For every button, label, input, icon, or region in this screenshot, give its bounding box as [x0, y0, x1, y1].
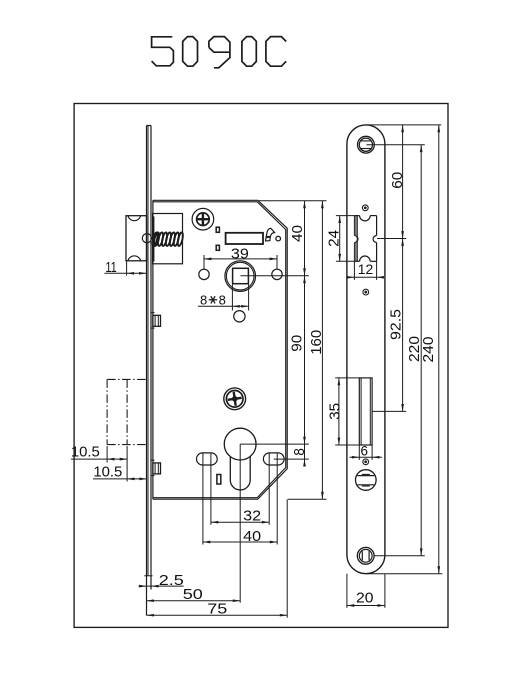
handle fixing hole left	[199, 269, 209, 279]
guide pin upper	[153, 315, 161, 326]
faceplate bottom screw hole	[357, 547, 374, 564]
svg-text:8: 8	[292, 448, 308, 456]
extension line plate bottom	[366, 573, 442, 575]
extension line plate top	[367, 124, 441, 126]
svg-text:10.5: 10.5	[93, 465, 122, 481]
svg-text:75: 75	[207, 601, 227, 617]
pin hole below latch cutout	[363, 289, 369, 295]
drawing border frame	[74, 104, 448, 628]
dim 24 latch cutout height	[336, 215, 355, 217]
dim 20 faceplate width	[346, 574, 348, 608]
stop lever	[266, 228, 274, 236]
dim 11 latch projection	[126, 261, 128, 276]
dim 8x8 follower square	[231, 285, 233, 311]
dim 35 deadbolt cutout height	[335, 377, 359, 379]
dim 40 slot spacing outer	[202, 453, 204, 544]
dim line 60 and 92.5 vertical	[402, 125, 404, 412]
svg-text:20: 20	[356, 590, 374, 606]
svg-text:2.5: 2.5	[159, 573, 184, 589]
stop lever pivot	[276, 236, 281, 241]
svg-text:40: 40	[290, 225, 306, 242]
latch shaft circle	[142, 234, 151, 243]
svg-text:10.5: 10.5	[71, 444, 100, 460]
extension line top screw centre	[367, 144, 425, 146]
dim line 160 vertical	[321, 201, 323, 499]
dim 12 latch cutout width	[353, 261, 355, 280]
fixing slot left	[197, 453, 218, 465]
svg-text:35: 35	[327, 403, 343, 420]
svg-text:50: 50	[183, 587, 203, 603]
title text 5090C	[152, 37, 174, 66]
handle fixing hole right	[272, 269, 282, 279]
extension line case top	[258, 200, 327, 202]
dim line 220 vertical	[420, 145, 422, 556]
follower hub	[225, 261, 256, 292]
dim line 40-90-8 vertical	[304, 201, 306, 464]
screw boss top	[192, 208, 214, 230]
svg-text:8: 8	[200, 292, 207, 307]
svg-text:6: 6	[361, 443, 369, 458]
follower square 8x8	[233, 268, 249, 283]
small hole lower	[216, 245, 219, 250]
latch cutout	[354, 215, 359, 217]
dim line 240 vertical	[438, 125, 440, 574]
svg-text:92.5: 92.5	[389, 309, 405, 340]
svg-text:12: 12	[358, 262, 374, 277]
extension line deadbolt cutout centre	[372, 410, 406, 412]
extension line slot centre	[274, 458, 309, 460]
extension line case bottom	[288, 498, 327, 500]
latch bolt head	[126, 216, 147, 261]
dim 39 hole spacing	[203, 255, 205, 269]
small hole bottom	[217, 475, 221, 485]
dim 10.5 deadbolt throw	[106, 446, 108, 463]
cylinder fixing hole	[356, 470, 377, 491]
guide pin lower	[153, 463, 161, 474]
dim 50 backset	[239, 444, 241, 603]
latch spring housing	[153, 214, 183, 264]
svg-text:32: 32	[243, 509, 261, 525]
svg-text:11: 11	[105, 260, 117, 276]
pin hole below deadbolt cutout	[363, 459, 369, 465]
fixing slot right	[263, 453, 284, 465]
svg-text:39: 39	[231, 246, 249, 262]
dim 10.5 deadbolt front	[93, 478, 147, 480]
svg-text:40: 40	[243, 529, 261, 545]
dim 75 case depth	[286, 499, 288, 618]
extension line bottom screw centre	[374, 555, 425, 557]
latch spring coil	[153, 232, 160, 246]
screw boss middle	[224, 388, 246, 410]
svg-text:160: 160	[309, 330, 325, 355]
lock case outline	[153, 200, 287, 499]
dim 6 deadbolt cutout width	[358, 445, 360, 460]
small hole upper	[216, 227, 219, 232]
dim 32 slot spacing	[210, 453, 212, 525]
svg-text:24: 24	[327, 230, 343, 247]
stop slot	[226, 233, 263, 244]
faceplate front outline	[347, 125, 385, 574]
pin hole above latch cutout	[362, 205, 368, 211]
deadbolt phantom outline	[107, 378, 146, 380]
faceplate top screw hole	[358, 136, 375, 153]
svg-text:240: 240	[421, 337, 437, 363]
deadbolt cutout	[359, 378, 372, 445]
extension line cylinder centre	[240, 443, 309, 445]
extension line latch cutout centre	[377, 238, 406, 240]
svg-text:90: 90	[289, 335, 305, 352]
svg-text:8: 8	[219, 292, 226, 307]
extension line follower centre	[241, 275, 309, 277]
euro cylinder hole	[224, 428, 256, 460]
hole below follower	[234, 311, 245, 322]
faceplate edge strip (side view)	[146, 126, 148, 616]
dim 2.5 faceplate thickness	[150, 576, 152, 590]
svg-text:60: 60	[390, 172, 406, 189]
